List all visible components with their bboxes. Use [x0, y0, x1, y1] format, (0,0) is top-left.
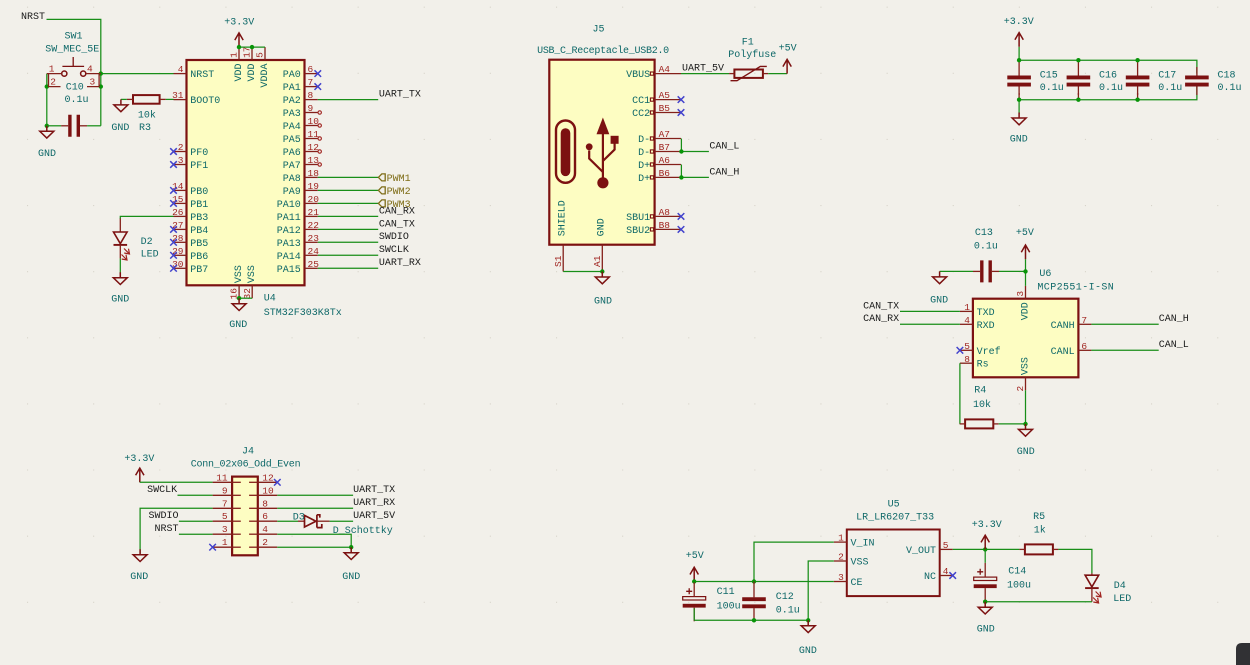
junction C17 top	[1135, 58, 1139, 62]
svg-text:CC2: CC2	[632, 109, 650, 120]
svg-text:CAN_TX: CAN_TX	[379, 219, 415, 230]
svg-text:11: 11	[308, 129, 320, 140]
svg-text:R5: R5	[1033, 512, 1045, 523]
J4 pin 10 (right)	[249, 485, 277, 496]
svg-text:U6: U6	[1039, 269, 1051, 280]
svg-text:1: 1	[229, 52, 240, 58]
svg-text:8: 8	[262, 498, 268, 509]
wire to UART_RX	[318, 267, 378, 269]
wire to CAN_RX	[318, 215, 378, 217]
svg-text:5: 5	[943, 540, 949, 551]
svg-text:TXD: TXD	[977, 308, 995, 319]
U5 pin 5 V_OUT	[906, 540, 953, 557]
svg-text:VDD: VDD	[247, 64, 258, 82]
svg-text:1k: 1k	[1034, 525, 1046, 537]
svg-text:CAN_H: CAN_H	[1159, 314, 1189, 325]
wire D+ pair join	[680, 165, 682, 178]
U4 pin 10 PA4	[283, 116, 322, 133]
svg-text:PA8: PA8	[283, 174, 301, 185]
svg-text:CE: CE	[851, 578, 863, 589]
capacitor C14 100u	[974, 563, 1031, 602]
svg-text:3: 3	[90, 77, 96, 88]
svg-text:A7: A7	[659, 129, 670, 140]
wire C10 right	[87, 125, 101, 127]
svg-text:GND: GND	[594, 297, 612, 308]
U5 pin 4 NC	[924, 566, 956, 583]
J4 pin 1 (left)	[213, 537, 241, 548]
node hierarchical label PWM2	[378, 187, 385, 194]
svg-text:20: 20	[308, 194, 320, 205]
wire decoupling bottom bus	[1019, 86, 1197, 99]
U4 pin 25 PA15	[277, 259, 319, 276]
svg-text:7: 7	[308, 77, 314, 88]
op-amp U5 LR_LR6207_T33 body	[847, 530, 940, 597]
junction VDD17	[250, 45, 254, 49]
junction C12 bottom	[752, 618, 756, 622]
svg-text:A1: A1	[592, 255, 603, 267]
wire C11 bottom rail	[694, 619, 808, 621]
ground at J4 right	[344, 547, 358, 559]
svg-text:B6: B6	[659, 168, 671, 179]
svg-text:13: 13	[308, 155, 320, 166]
svg-text:31: 31	[172, 90, 184, 101]
svg-text:12: 12	[262, 472, 274, 483]
svg-text:19: 19	[308, 181, 320, 192]
junction D+	[679, 175, 683, 179]
capacitor C16 0.1u	[1067, 60, 1123, 99]
svg-text:GND: GND	[977, 625, 995, 636]
junction D-	[679, 149, 683, 153]
svg-text:NRST: NRST	[190, 70, 214, 81]
J5 USB trident logo	[586, 118, 619, 189]
U4 pin 23 PA13	[277, 233, 319, 250]
svg-text:NRST: NRST	[154, 524, 178, 535]
svg-text:PA1: PA1	[283, 83, 301, 94]
svg-text:C11: C11	[717, 587, 735, 598]
no-connect J4 pin 1	[209, 544, 216, 551]
svg-text:3: 3	[1015, 291, 1026, 297]
svg-text:VSS: VSS	[234, 265, 245, 283]
svg-text:D3: D3	[293, 512, 305, 523]
wire D- to CAN_L	[681, 151, 709, 153]
svg-text:2: 2	[262, 537, 268, 548]
wire C15 to ground	[1018, 100, 1020, 114]
svg-text:PA9: PA9	[283, 187, 301, 198]
svg-text:LED: LED	[1113, 594, 1131, 605]
svg-text:UART_RX: UART_RX	[353, 498, 395, 509]
node hierarchical label PWM3	[378, 200, 385, 207]
J5 pin B7 D-	[638, 142, 681, 159]
svg-text:NRST: NRST	[21, 12, 45, 23]
junction C10 left	[45, 124, 49, 128]
svg-text:C15: C15	[1040, 71, 1058, 82]
svg-text:4: 4	[262, 524, 268, 535]
junction switch pin 2	[45, 84, 49, 88]
svg-text:B8: B8	[659, 220, 671, 231]
svg-text:U4: U4	[264, 294, 276, 305]
wire PB3 to D2	[120, 216, 173, 219]
wire switch left side	[46, 74, 48, 126]
capacitor C10 0.1u	[61, 83, 88, 137]
svg-text:10: 10	[262, 485, 274, 496]
svg-text:VBUS: VBUS	[626, 70, 650, 81]
wire R3 to BOOT0	[166, 98, 174, 100]
J4 pin 5 (left)	[213, 511, 241, 522]
ground below U5	[801, 620, 815, 632]
U4 pin 9 PA3	[283, 103, 322, 120]
svg-text:VSS: VSS	[1020, 357, 1031, 375]
svg-text:1: 1	[964, 302, 970, 313]
wire R5 to D4	[1058, 549, 1092, 573]
wire C11 stem bottom	[693, 608, 695, 620]
svg-text:0.1u: 0.1u	[1099, 83, 1123, 94]
svg-text:PB3: PB3	[190, 213, 208, 224]
U4 pin 2 PF0	[170, 142, 208, 159]
J5 pin B6 D+	[638, 168, 681, 185]
svg-text:B5: B5	[659, 103, 671, 114]
U4 pin 8 PA2	[283, 90, 318, 107]
U4 pin 30 PB7	[170, 259, 208, 276]
wire J4 pin 6 to D3	[277, 520, 298, 522]
U4 pin 3 PF1	[170, 155, 208, 172]
J5 pin A7 D-	[638, 129, 681, 146]
svg-text:9: 9	[222, 485, 228, 496]
svg-text:GND: GND	[342, 572, 360, 583]
U4 pin 6 PA0	[283, 64, 321, 81]
svg-text:Vref: Vref	[977, 346, 1001, 358]
svg-text:C14: C14	[1008, 567, 1026, 578]
svg-text:C12: C12	[776, 592, 794, 603]
U4 pin 22 PA12	[277, 220, 319, 237]
ground at R3	[114, 99, 128, 111]
J5 pin A1 GND (bottom)	[592, 218, 608, 271]
svg-text:GND: GND	[111, 295, 129, 306]
wire SWCLK to J4 pin 9	[178, 494, 213, 496]
capacitor C13 0.1u	[973, 228, 999, 283]
J5 pin A4 VBUS	[626, 64, 681, 81]
svg-text:GND: GND	[38, 149, 56, 160]
svg-text:+3.3V: +3.3V	[124, 454, 154, 465]
LED D2	[114, 219, 159, 261]
svg-text:CC1: CC1	[632, 96, 650, 107]
J5 pin S1 SHIELD (bottom)	[553, 200, 569, 271]
svg-text:CAN_L: CAN_L	[709, 141, 739, 152]
svg-text:10k: 10k	[973, 399, 991, 411]
ground at C13	[933, 271, 947, 283]
wire U4 VDD rail	[239, 46, 265, 48]
U4 pin 32 VSS (bottom)	[242, 265, 258, 299]
svg-text:V_IN: V_IN	[851, 539, 875, 550]
wire CANL to CAN_L	[1091, 349, 1158, 351]
U4 pin 29 PB6	[170, 246, 208, 263]
junction VSS	[237, 296, 241, 300]
U6 pin 6 CANL	[1051, 341, 1092, 358]
U6 pin 7 CANH	[1051, 315, 1092, 332]
ground below C14	[978, 602, 992, 614]
wire J5 shield to gnd	[563, 271, 602, 273]
capacitor C15 0.1u	[1007, 60, 1063, 99]
junction C16 bottom	[1076, 98, 1080, 102]
junction switch pin 3	[99, 84, 103, 88]
svg-text:VDD: VDD	[234, 64, 245, 82]
U4 pin 5 VDDA (top)	[255, 47, 271, 87]
power +5V at F1	[783, 59, 791, 73]
junction bottom rail / gnd	[806, 618, 810, 622]
svg-text:MCP2551-I-SN: MCP2551-I-SN	[1037, 282, 1114, 293]
svg-text:PA4: PA4	[283, 122, 301, 133]
J4 pin 8 (right)	[249, 498, 277, 509]
svg-text:PA15: PA15	[277, 265, 301, 276]
junction V_IN/C12	[752, 579, 756, 583]
wire NRST to J4 pin 3	[179, 533, 213, 535]
U4 pin 31 BOOT0	[172, 90, 220, 107]
junction C17 bottom	[1135, 98, 1139, 102]
svg-text:6: 6	[308, 64, 314, 75]
U4 pin 26 PB3	[172, 207, 208, 224]
svg-text:PA5: PA5	[283, 135, 301, 146]
svg-text:7: 7	[1081, 315, 1087, 326]
wire U6 VSS down	[1025, 390, 1027, 424]
junction +5V/C11	[692, 579, 696, 583]
wire C13 left to ground	[940, 270, 973, 272]
svg-text:PA13: PA13	[277, 239, 301, 250]
U4 pin 19 PA9	[283, 181, 319, 198]
wire U4 VSS tie	[239, 297, 252, 299]
wire +3.3V to J4 pin 11	[140, 481, 213, 483]
U4 pin 13 PA7	[283, 155, 322, 172]
svg-text:100u: 100u	[1007, 580, 1031, 591]
svg-text:VDDA: VDDA	[260, 64, 271, 88]
svg-text:PB0: PB0	[190, 187, 208, 198]
svg-text:GND: GND	[799, 646, 817, 657]
wire D3 to UART_5V	[330, 520, 354, 522]
svg-text:UART_TX: UART_TX	[379, 90, 421, 101]
svg-text:8: 8	[308, 90, 314, 101]
svg-text:STM32F303K8Tx: STM32F303K8Tx	[264, 308, 342, 319]
U6 pin 2 VSS (bottom)	[1015, 357, 1031, 391]
svg-text:UART_TX: UART_TX	[353, 485, 395, 496]
wire J4 pin 8 to UART_RX	[277, 507, 353, 509]
svg-text:2: 2	[50, 77, 56, 88]
no-connect J4 pin 12	[274, 479, 281, 486]
J5 USB-C receptacle glyph	[556, 121, 575, 183]
svg-text:+5V: +5V	[779, 44, 797, 55]
wire F1 to +5V	[768, 73, 787, 75]
U4 pin 15 PB1	[170, 194, 208, 211]
wire J4 pin 4 to ground rail	[277, 534, 351, 547]
svg-text:PA11: PA11	[277, 213, 301, 224]
wire V_OUT to +3.3V node	[953, 548, 1020, 550]
svg-text:PF0: PF0	[190, 148, 208, 159]
wire C10 left	[47, 125, 61, 127]
connector J4 Conn_02x06_Odd_Even body	[232, 477, 258, 556]
svg-text:0.1u: 0.1u	[1040, 83, 1064, 94]
U4 pin 14 PB0	[170, 181, 208, 198]
svg-text:25: 25	[308, 259, 320, 270]
svg-text:5: 5	[255, 52, 266, 58]
svg-text:5: 5	[222, 511, 228, 522]
junction V_OUT	[983, 547, 987, 551]
svg-text:A6: A6	[659, 155, 671, 166]
svg-text:SBU1: SBU1	[626, 213, 650, 224]
svg-text:4: 4	[943, 566, 949, 577]
wire Rs down to R4	[959, 363, 961, 424]
wire C14 top	[984, 549, 986, 562]
junction C15 bottom	[1017, 98, 1021, 102]
wire to SWCLK	[318, 254, 378, 256]
J5 pin A8 SBU1	[626, 207, 684, 224]
wire V_IN drop	[754, 542, 834, 581]
svg-text:PA7: PA7	[283, 161, 301, 172]
U4 pin 17 VDD (top)	[242, 46, 258, 81]
svg-text:PA3: PA3	[283, 109, 301, 120]
svg-text:GND: GND	[930, 295, 948, 306]
wire J4 pin 10 to UART_TX	[277, 494, 353, 496]
svg-text:Polyfuse: Polyfuse	[728, 49, 776, 61]
wire R4 to VSS/ground	[999, 423, 1026, 425]
svg-text:2: 2	[1015, 386, 1026, 392]
J4 pin 3 (left)	[213, 524, 241, 535]
power +3.3V at C15 bank	[1015, 33, 1023, 47]
U4 pin 20 PA10	[277, 194, 319, 211]
wire CANH to CAN_H	[1091, 323, 1158, 325]
svg-text:+5V: +5V	[1016, 228, 1034, 239]
svg-text:NC: NC	[924, 572, 936, 583]
svg-text:CAN_L: CAN_L	[1159, 340, 1189, 351]
svg-text:+3.3V: +3.3V	[972, 520, 1002, 531]
junction J5 gnd	[600, 269, 604, 273]
svg-text:SWCLK: SWCLK	[147, 485, 177, 496]
switch SW1 SW_MEC_5E	[45, 32, 101, 88]
svg-text:1: 1	[222, 537, 228, 548]
U5 pin 2 VSS	[834, 552, 869, 569]
svg-text:GND: GND	[597, 218, 608, 236]
svg-text:CAN_H: CAN_H	[709, 167, 739, 178]
svg-text:CAN_RX: CAN_RX	[379, 206, 415, 217]
LED D4	[1085, 573, 1131, 605]
wire R3 left to ground	[121, 98, 127, 100]
svg-text:U5: U5	[888, 500, 900, 511]
svg-text:VDD: VDD	[1020, 302, 1031, 320]
svg-text:12: 12	[308, 142, 320, 153]
wire C13 right to +5V	[999, 270, 1026, 272]
U4 pin 28 PB5	[170, 233, 208, 250]
wire PA9 to PWM2	[318, 189, 379, 191]
op-amp U4 STM32F303K8Tx MCU body	[187, 60, 305, 285]
wire D+ to CAN_H	[681, 176, 709, 178]
svg-text:C18: C18	[1218, 71, 1236, 82]
svg-text:V_OUT: V_OUT	[906, 546, 936, 557]
svg-text:10k: 10k	[138, 109, 156, 121]
svg-text:SWCLK: SWCLK	[379, 245, 409, 256]
fuse F1 Polyfuse	[728, 37, 776, 80]
svg-text:USB_C_Receptacle_USB2.0: USB_C_Receptacle_USB2.0	[537, 45, 669, 57]
svg-text:LR_LR6207_T33: LR_LR6207_T33	[856, 513, 934, 524]
svg-text:A5: A5	[659, 90, 671, 101]
svg-text:D+: D+	[638, 161, 650, 172]
svg-text:3: 3	[222, 524, 228, 535]
svg-text:LED: LED	[141, 249, 159, 260]
svg-text:PB5: PB5	[190, 239, 208, 250]
ground below U4	[232, 298, 246, 310]
J4 pin 7 (left)	[213, 498, 241, 509]
power +3.3V at U4	[235, 33, 243, 47]
svg-text:Rs: Rs	[977, 360, 989, 371]
ground below switch	[40, 126, 54, 138]
svg-text:9: 9	[308, 103, 314, 114]
svg-text:D4: D4	[1114, 581, 1126, 592]
junction R4/VSS	[1023, 422, 1027, 426]
svg-text:0.1u: 0.1u	[1158, 83, 1182, 94]
svg-text:GND: GND	[111, 123, 129, 134]
svg-text:C10: C10	[66, 83, 84, 94]
svg-text:1: 1	[49, 64, 55, 75]
svg-text:6: 6	[262, 511, 268, 522]
svg-text:J5: J5	[593, 25, 605, 36]
svg-text:4: 4	[964, 315, 970, 326]
svg-text:SHIELD: SHIELD	[558, 200, 569, 236]
U4 pin 18 PA8	[283, 168, 319, 185]
svg-text:SW_MEC_5E: SW_MEC_5E	[45, 45, 99, 56]
U6 pin 8 Rs	[960, 354, 989, 371]
svg-text:22: 22	[308, 220, 320, 231]
svg-text:PA6: PA6	[283, 148, 301, 159]
svg-text:0.1u: 0.1u	[65, 95, 89, 106]
J5 pin B5 CC2	[632, 103, 684, 120]
svg-text:D+: D+	[638, 174, 650, 185]
wire D4 return to C14	[985, 601, 1092, 603]
svg-text:+3.3V: +3.3V	[1004, 17, 1034, 28]
svg-text:PB7: PB7	[190, 265, 208, 276]
svg-text:CAN_TX: CAN_TX	[863, 301, 899, 312]
wire to SWDIO	[318, 241, 378, 243]
svg-text:UART_5V: UART_5V	[682, 64, 724, 75]
wire SWDIO to J4 pin 5	[179, 520, 213, 522]
J4 pin 6 (right)	[249, 511, 277, 522]
capacitor C12 0.1u	[742, 582, 800, 621]
junction C14 bottom	[983, 600, 987, 604]
ground below U6	[1019, 424, 1033, 436]
capacitor C18 0.1u	[1185, 67, 1241, 95]
svg-text:UART_RX: UART_RX	[379, 258, 421, 269]
ground at J4 left	[133, 549, 147, 561]
svg-text:PA2: PA2	[283, 96, 301, 107]
svg-text:5: 5	[964, 341, 970, 352]
ground below J5	[595, 272, 609, 284]
wire VBUS to F1	[681, 73, 729, 75]
wire J4 pin 7 to ground	[140, 508, 213, 553]
svg-text:VSS: VSS	[247, 265, 258, 283]
svg-text:24: 24	[308, 246, 320, 257]
svg-text:3: 3	[838, 572, 844, 583]
resistor R3 10k	[127, 95, 166, 134]
svg-text:PA14: PA14	[277, 252, 301, 263]
svg-text:GND: GND	[1010, 135, 1028, 146]
svg-text:F1: F1	[742, 37, 754, 48]
wire PA2 to UART_TX	[318, 99, 378, 101]
U4 pin 12 PA6	[283, 142, 322, 159]
junction switch pin 4	[99, 71, 103, 75]
capacitor C11 100u	[683, 582, 741, 621]
U6 pin 1 TXD	[960, 302, 995, 319]
svg-text:PWM2: PWM2	[387, 187, 411, 198]
wire CAN_RX to U6	[900, 323, 960, 325]
svg-text:D-: D-	[638, 148, 650, 159]
svg-text:100u: 100u	[717, 601, 741, 612]
svg-text:0.1u: 0.1u	[776, 605, 800, 616]
svg-text:7: 7	[222, 498, 228, 509]
svg-text:+5V: +5V	[686, 551, 704, 562]
